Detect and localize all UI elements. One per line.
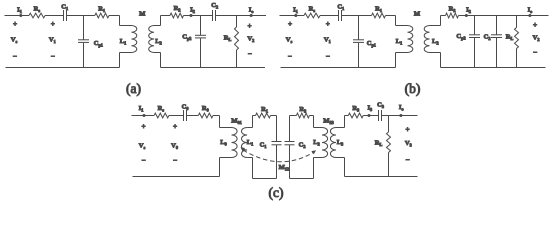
svg-text:M: M xyxy=(139,11,146,18)
svg-text:L1: L1 xyxy=(120,38,127,46)
svg-text:+: + xyxy=(326,20,330,28)
svg-text:M: M xyxy=(414,11,421,18)
svg-text:C3: C3 xyxy=(377,101,384,109)
svg-text:R1: R1 xyxy=(98,6,105,14)
svg-text:+: + xyxy=(51,20,55,28)
svg-text:M01: M01 xyxy=(231,117,241,125)
svg-text:C2: C2 xyxy=(299,142,306,150)
svg-text:C1: C1 xyxy=(337,3,344,11)
svg-text:L1: L1 xyxy=(396,38,403,46)
svg-text:V2: V2 xyxy=(533,35,540,43)
svg-text:−: − xyxy=(248,50,252,58)
svg-text:I1: I1 xyxy=(17,7,22,15)
svg-text:V2: V2 xyxy=(247,36,254,44)
svg-text:L3: L3 xyxy=(337,139,344,147)
svg-text:R2: R2 xyxy=(299,106,306,114)
svg-text:L0: L0 xyxy=(220,139,227,147)
svg-text:Cp1: Cp1 xyxy=(367,40,376,48)
svg-text:−: − xyxy=(51,53,55,61)
svg-text:+: + xyxy=(405,126,409,134)
svg-text:(c): (c) xyxy=(269,185,284,200)
svg-text:L2: L2 xyxy=(313,139,320,147)
svg-text:RL: RL xyxy=(506,34,514,42)
svg-text:+: + xyxy=(288,20,292,28)
svg-text:−: − xyxy=(326,53,330,61)
svg-text:Rs: Rs xyxy=(309,6,316,14)
svg-text:C1: C1 xyxy=(260,142,267,150)
svg-text:Vs: Vs xyxy=(286,37,293,45)
svg-text:−: − xyxy=(405,156,409,164)
svg-text:V0: V0 xyxy=(171,143,178,151)
svg-text:L1: L1 xyxy=(247,139,254,147)
svg-text:R2: R2 xyxy=(449,6,456,14)
svg-text:C2: C2 xyxy=(211,2,218,9)
svg-text:M23: M23 xyxy=(323,117,333,125)
svg-text:I2: I2 xyxy=(466,7,471,15)
svg-text:+: + xyxy=(141,122,145,130)
svg-text:Cp2: Cp2 xyxy=(182,34,191,42)
svg-text:Io: Io xyxy=(249,7,254,15)
svg-text:−: − xyxy=(533,48,537,56)
svg-text:+: + xyxy=(173,122,177,130)
svg-text:C2: C2 xyxy=(484,34,491,42)
svg-text:R3: R3 xyxy=(352,105,359,113)
svg-text:RL: RL xyxy=(375,140,383,148)
svg-text:(a): (a) xyxy=(126,81,141,96)
svg-text:RL: RL xyxy=(224,35,232,43)
svg-text:(b): (b) xyxy=(405,81,421,96)
svg-text:Cp2: Cp2 xyxy=(456,33,465,41)
svg-text:R1: R1 xyxy=(375,6,382,14)
svg-text:I2: I2 xyxy=(190,7,195,15)
svg-text:−: − xyxy=(13,53,17,61)
svg-text:L2: L2 xyxy=(432,38,439,46)
svg-text:+: + xyxy=(13,20,17,28)
svg-text:Io: Io xyxy=(528,7,533,15)
svg-text:C1: C1 xyxy=(61,3,68,11)
svg-text:I3: I3 xyxy=(367,104,372,112)
svg-text:V1: V1 xyxy=(49,37,56,45)
svg-text:Rs: Rs xyxy=(158,105,165,113)
svg-text:L2: L2 xyxy=(155,38,162,46)
svg-text:Cp1: Cp1 xyxy=(94,40,103,48)
svg-text:C0: C0 xyxy=(182,103,189,111)
svg-text:V1: V1 xyxy=(324,37,331,45)
svg-text:M12: M12 xyxy=(279,164,289,172)
svg-text:Rs: Rs xyxy=(34,6,41,14)
svg-text:+: + xyxy=(533,21,537,29)
svg-text:I1: I1 xyxy=(139,105,144,113)
svg-text:−: − xyxy=(288,53,292,61)
svg-text:Vs: Vs xyxy=(11,37,18,45)
svg-text:V3: V3 xyxy=(405,140,412,148)
svg-text:Vs: Vs xyxy=(139,143,146,151)
svg-text:+: + xyxy=(247,22,251,30)
svg-text:I1: I1 xyxy=(293,7,298,15)
svg-text:R0: R0 xyxy=(202,105,209,113)
svg-text:R1: R1 xyxy=(261,106,268,114)
svg-text:R2: R2 xyxy=(174,5,181,13)
svg-text:−: − xyxy=(141,157,145,165)
svg-text:Io: Io xyxy=(399,104,404,112)
svg-text:−: − xyxy=(173,157,177,165)
